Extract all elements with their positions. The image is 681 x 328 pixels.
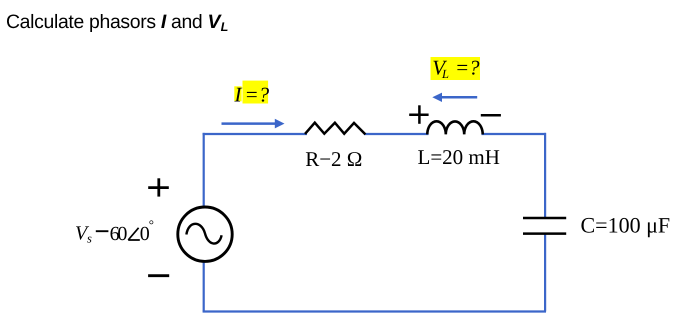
svg-text:60: 60: [110, 223, 128, 245]
svg-text:=: =: [455, 55, 469, 79]
svg-text:?: ?: [469, 55, 480, 79]
svg-text:°: °: [149, 217, 154, 232]
svg-text:L=20 mH: L=20 mH: [418, 145, 500, 169]
svg-text:C=100 μF: C=100 μF: [581, 212, 671, 237]
svg-text:L: L: [441, 67, 449, 81]
svg-text:I: I: [234, 83, 243, 107]
svg-text:s: s: [87, 232, 92, 246]
svg-text:=?: =?: [245, 83, 270, 107]
svg-text:R−2 Ω: R−2 Ω: [305, 147, 362, 171]
svg-text:Calculate phasors I and VL: Calculate phasors I and VL: [6, 11, 228, 34]
